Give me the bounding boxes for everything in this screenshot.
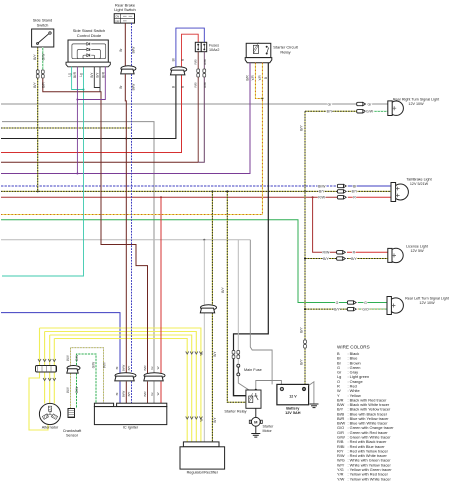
wire B/Y branch to license light bbox=[305, 258, 337, 260]
connector pills rear left turn signal bbox=[347, 301, 353, 304]
svg-text:G/W: G/W bbox=[92, 362, 96, 368]
connector oval igniter group A bbox=[115, 373, 136, 381]
wire R red bus bbox=[1, 75, 182, 152]
connector bullet side stand G/W bbox=[41, 70, 44, 74]
svg-text:Main Fuse: Main Fuse bbox=[244, 368, 262, 372]
svg-text:Bl: Bl bbox=[172, 58, 176, 61]
arrows on regulator wires upper bbox=[186, 352, 189, 355]
arrows on regulator wires lower bbox=[186, 417, 189, 420]
svg-text:12V 5AH: 12V 5AH bbox=[285, 411, 301, 415]
svg-text:12V 5/21W: 12V 5/21W bbox=[410, 182, 429, 186]
wire Bl/R purple bus to starter circuit relay bbox=[1, 63, 250, 174]
svg-text:12V 10W: 12V 10W bbox=[419, 301, 435, 305]
wire B thick to starter relay bbox=[234, 359, 246, 396]
wire B/Y drop to regulator bbox=[211, 191, 213, 442]
svg-text:Bl/W: Bl/W bbox=[121, 391, 125, 398]
svg-text:10Ax2: 10Ax2 bbox=[209, 48, 219, 52]
connector pill B/Y bbox=[357, 110, 363, 113]
svg-text:B/Y: B/Y bbox=[300, 125, 304, 131]
box IC igniter bbox=[94, 403, 113, 406]
svg-text:B/Y: B/Y bbox=[300, 327, 304, 333]
svg-text:B/Y: B/Y bbox=[319, 190, 325, 194]
node junction R/W bus drops bbox=[160, 196, 162, 198]
connector bullet fuse1 bbox=[197, 69, 200, 73]
svg-text:B/Y: B/Y bbox=[127, 366, 131, 371]
node junction W bus / fuse2 drop bbox=[203, 239, 205, 241]
wire G to left turn bulb bbox=[358, 302, 387, 304]
svg-text:B/Y: B/Y bbox=[96, 72, 100, 78]
svg-text:License Light: License Light bbox=[406, 245, 428, 249]
wire B/Y ground bus vertical bbox=[304, 111, 306, 340]
svg-text:B/Y: B/Y bbox=[323, 257, 329, 261]
connector bullet B/Y ground bus bbox=[304, 340, 307, 344]
wire Bl/W rear brake switch right bbox=[131, 23, 133, 66]
lamp tail/brake bulb dual filament bbox=[392, 184, 408, 200]
svg-text:B/Y: B/Y bbox=[327, 110, 333, 114]
connector bullet fuse2 bbox=[203, 69, 206, 73]
svg-text:Bl/W: Bl/W bbox=[318, 184, 326, 188]
svg-text:B/Y: B/Y bbox=[90, 72, 94, 78]
diode-pack base flange bbox=[66, 62, 110, 67]
fuse block F1 F2 10A x2 bbox=[195, 42, 206, 51]
wire Y/R relay pin3 down to Y/R bus bbox=[261, 63, 263, 99]
wire G/O to left turn bulb bbox=[358, 308, 387, 310]
svg-text:G/W: G/W bbox=[366, 110, 374, 114]
wire battery positive to starter relay bbox=[256, 381, 282, 391]
wire Y/R relay pin2 jog bbox=[255, 63, 262, 99]
wire Y yellow phase 1 loop around alternator bbox=[29, 373, 48, 431]
svg-text:B/Y: B/Y bbox=[351, 257, 357, 261]
wire R/W red-white bus to tail light bbox=[1, 196, 337, 198]
wire B/Y diode pin4 bbox=[94, 67, 100, 88]
svg-text:Sensor: Sensor bbox=[66, 434, 79, 438]
wire R to tail bulb bbox=[348, 196, 391, 198]
connector oval main harness bbox=[171, 67, 187, 75]
svg-text:G: G bbox=[364, 301, 367, 305]
wire Y yellow phase 1 (loop) bbox=[40, 328, 201, 442]
svg-text:Switch: Switch bbox=[37, 22, 49, 27]
svg-text:Crankshaft: Crankshaft bbox=[63, 429, 82, 433]
relay starter relay box bbox=[246, 390, 261, 408]
connector oval regulator leads bbox=[200, 305, 216, 313]
svg-text:Y/R: Y/R bbox=[251, 75, 255, 81]
svg-text:G: G bbox=[336, 301, 339, 305]
wire R/Bl fuse2 joining fuse1 output bbox=[198, 77, 204, 162]
wire Y yellow phase 4 bbox=[54, 339, 187, 442]
wire R/B from fuse1 bbox=[197, 52, 199, 69]
wire Br continues to IC igniter bbox=[125, 74, 126, 374]
connector bullet side stand B/Y bbox=[36, 70, 39, 74]
wire B/Y bus upper (black/yellow) bbox=[1, 127, 131, 129]
diode-pack side stand switch control diode box bbox=[68, 40, 108, 62]
wire Lg diode pin1 bbox=[72, 67, 84, 90]
svg-text:W/Y: W/Y bbox=[66, 354, 70, 361]
wire B black bus bbox=[1, 75, 176, 138]
svg-text:Starter: Starter bbox=[263, 425, 275, 429]
switch side stand switch box bbox=[32, 29, 54, 47]
wire G green bus to rear left turn signal bbox=[1, 220, 347, 303]
svg-text:Light Switch: Light Switch bbox=[114, 7, 136, 12]
node junction B bus / rear brake wire bbox=[125, 138, 127, 140]
wire R/Bl from fuse2 bbox=[203, 52, 205, 69]
node junction Y/R pins bbox=[261, 97, 263, 99]
connector pills tail/brake light bbox=[337, 184, 343, 187]
wire W main fuse feed from W bus bbox=[237, 240, 239, 364]
connector bullet main fuse wire bbox=[237, 351, 240, 355]
wire B/R from relay to purple bus bbox=[249, 63, 251, 174]
wire B/Y branch to rear left turn signal bbox=[305, 308, 347, 310]
wire R/B fuse1 to bus bbox=[197, 77, 199, 162]
svg-text:Rear Left Turn Signal Light: Rear Left Turn Signal Light bbox=[405, 297, 449, 301]
wire B/R from bullet joining diode output bbox=[43, 78, 148, 374]
connector bullet battery cable bbox=[232, 351, 235, 355]
wire Y yellow phase 3 bbox=[50, 335, 192, 442]
svg-text:12V 5W: 12V 5W bbox=[410, 249, 424, 253]
battery box bbox=[277, 384, 309, 404]
wire W gray bus (white) bbox=[1, 239, 250, 241]
wire B/Y drop to starter relay bbox=[227, 191, 246, 402]
svg-text:OFF: OFF bbox=[115, 21, 120, 23]
svg-text:B/R: B/R bbox=[42, 82, 46, 88]
svg-text:G/W: G/W bbox=[42, 53, 46, 61]
svg-text:: Yellow with White tracer: : Yellow with White tracer bbox=[348, 476, 392, 481]
svg-text:Y/W: Y/W bbox=[337, 476, 345, 481]
svg-text:B/Y: B/Y bbox=[300, 359, 304, 365]
wire Y/R yellow-red bus from starter circuit relay bbox=[1, 98, 262, 214]
wire Gr gray bus to rear right turn signal bbox=[1, 103, 357, 105]
svg-text:R/Bl: R/Bl bbox=[203, 82, 207, 88]
svg-text:B/Y: B/Y bbox=[221, 287, 225, 293]
svg-text:Fuses: Fuses bbox=[209, 43, 219, 47]
svg-text:Bl/R: Bl/R bbox=[73, 71, 77, 78]
relay starter circuit relay box bbox=[246, 43, 271, 57]
svg-text:Control Diode: Control Diode bbox=[77, 33, 102, 38]
wire Bl/W continues to IC igniter bbox=[131, 74, 133, 374]
wire B/Y to tail bulb bbox=[348, 190, 391, 192]
svg-text:Tail/Brake Light: Tail/Brake Light bbox=[406, 178, 431, 182]
wire Bl blue feed to fuse 2 bbox=[176, 28, 204, 67]
svg-text:W/Y: W/Y bbox=[66, 386, 70, 393]
svg-text:Gr: Gr bbox=[150, 392, 154, 395]
svg-text:Y/R: Y/R bbox=[258, 75, 262, 81]
wire battery negative to ground bbox=[309, 382, 314, 404]
switch rear brake light switch box bbox=[114, 14, 134, 23]
wire R to license bulb bbox=[347, 251, 388, 253]
svg-text:R/W: R/W bbox=[318, 196, 326, 200]
connector pill Gr bbox=[357, 102, 363, 105]
wire Bl to tail bulb bbox=[348, 185, 391, 187]
svg-text:G/O: G/O bbox=[362, 307, 369, 311]
svg-text:W/Y: W/Y bbox=[102, 361, 106, 368]
svg-text:Bl/R: Bl/R bbox=[101, 71, 105, 78]
svg-text:Relay: Relay bbox=[280, 50, 290, 55]
wire Bl/R diode pin2 to purple bus bbox=[76, 67, 78, 174]
svg-text:G/W: G/W bbox=[75, 355, 79, 361]
wire main fuse to starter relay bbox=[238, 376, 256, 390]
wire G/W from side stand switch bbox=[42, 47, 44, 70]
connector oval igniter group B bbox=[144, 373, 165, 381]
svg-text:12 V: 12 V bbox=[289, 395, 297, 399]
relay base flange bbox=[245, 58, 272, 63]
wire B/Y to license bulb bbox=[347, 258, 388, 260]
svg-text:B/Y: B/Y bbox=[33, 82, 37, 88]
wire Gr + B/Y to rear right turn signal connectors bbox=[305, 110, 357, 112]
connector oval crankshaft sensor bbox=[67, 366, 80, 374]
svg-text:Rear Right Turn Signal Light: Rear Right Turn Signal Light bbox=[393, 97, 439, 101]
svg-text:R/B: R/B bbox=[194, 82, 198, 87]
svg-text:W: W bbox=[199, 418, 203, 421]
wire G/W crankshaft sensor to igniter bbox=[76, 374, 78, 409]
wire B/Y bus lower (ground) to tail light bbox=[1, 190, 337, 192]
svg-text:R/W: R/W bbox=[322, 251, 330, 255]
wire R red feed to fuse 1 bbox=[182, 34, 199, 67]
svg-text:Gr: Gr bbox=[150, 366, 154, 369]
svg-text:B/Y: B/Y bbox=[213, 417, 217, 423]
svg-text:R/B: R/B bbox=[194, 59, 198, 64]
wire B/Y ground bus to battery negative bbox=[304, 348, 306, 384]
wire R/W drop to license light bbox=[313, 197, 337, 252]
wire Bl/R diode pin6 joining pin2 bbox=[77, 67, 105, 100]
svg-text:Alternator: Alternator bbox=[42, 426, 59, 430]
svg-text:Bl/W: Bl/W bbox=[131, 47, 135, 54]
svg-text:B/Y: B/Y bbox=[213, 351, 217, 357]
svg-text:Bl/W: Bl/W bbox=[131, 84, 135, 91]
connector oval rear brake switch bbox=[121, 66, 136, 74]
svg-text:G/W: G/W bbox=[75, 387, 79, 393]
svg-text:B/R: B/R bbox=[246, 75, 250, 81]
svg-text:Motor: Motor bbox=[263, 429, 273, 433]
wire B/Y below bullet to B/Y bus bbox=[37, 78, 39, 191]
svg-text:Bl: Bl bbox=[115, 392, 119, 395]
wire Y yellow phase 2 bbox=[45, 332, 197, 442]
svg-text:W: W bbox=[156, 366, 160, 369]
svg-text:B/Y: B/Y bbox=[352, 190, 358, 194]
node junction starter relay terminal bbox=[255, 389, 257, 391]
wire starter motor to ground bbox=[255, 426, 257, 433]
lamp rear right turn signal bulb bbox=[389, 101, 403, 115]
svg-text:Lg: Lg bbox=[79, 73, 83, 77]
svg-text:Starter Relay: Starter Relay bbox=[224, 410, 246, 414]
node junction Bl/R bus / diode drop bbox=[76, 173, 78, 175]
ground starter motor bbox=[251, 433, 260, 435]
svg-text:B/R: B/R bbox=[143, 365, 147, 371]
node junction B/Y bus drops bbox=[37, 190, 39, 192]
svg-text:R/Bl: R/Bl bbox=[203, 59, 207, 65]
wire Bl blue bus to IC igniter bbox=[1, 313, 120, 375]
wire G/W connector to bulb bbox=[367, 110, 388, 112]
svg-text:W: W bbox=[156, 392, 160, 395]
svg-text:B: B bbox=[172, 86, 176, 88]
fuse main fuse symbol bbox=[237, 364, 240, 367]
ground battery bbox=[310, 403, 319, 405]
wire W drop from red bus to igniter bbox=[160, 197, 162, 374]
svg-text:B/Y: B/Y bbox=[334, 307, 340, 311]
wire starter relay to starter motor bbox=[255, 408, 257, 417]
arrows on alternator wires above connector bbox=[38, 359, 41, 362]
svg-text:ON: ON bbox=[115, 16, 119, 19]
wire W/Y crankshaft sensor to igniter bbox=[70, 374, 72, 409]
wire B relay pin4 to starter relay bbox=[234, 63, 269, 351]
svg-text:Battery: Battery bbox=[286, 407, 300, 411]
wire Gr connector to bulb bbox=[367, 103, 388, 105]
sensor crankshaft sensor body bbox=[68, 409, 75, 418]
lamp license light bulb bbox=[389, 248, 403, 262]
wire Lg light green branch bbox=[2, 67, 84, 276]
svg-text:12V 10W: 12V 10W bbox=[408, 102, 424, 106]
wire B/Y diode pin5 joining B/R net bbox=[99, 67, 101, 92]
wire W bus branch to battery positive bbox=[250, 240, 272, 385]
box regulator/rectifier bbox=[183, 442, 219, 447]
svg-text:B/Y: B/Y bbox=[127, 392, 131, 397]
node junction Lg pins bbox=[83, 89, 85, 91]
motor starter motor bbox=[251, 417, 260, 426]
svg-text:Bl: Bl bbox=[353, 184, 356, 188]
svg-text:B/Y: B/Y bbox=[33, 54, 37, 60]
alternator symbol bbox=[39, 403, 60, 424]
lamp rear left turn signal bulb bbox=[388, 298, 403, 313]
connector pills license light bbox=[337, 251, 343, 254]
svg-text:Regulator/Rectifier: Regulator/Rectifier bbox=[187, 471, 219, 475]
svg-text:B: B bbox=[264, 77, 268, 79]
wire Gr branch to IC igniter (gray loop) bbox=[2, 122, 154, 375]
wire B/Y from side stand switch bbox=[37, 47, 39, 70]
svg-text:Bl/W: Bl/W bbox=[121, 365, 125, 372]
wire W from fuse2 to regulator bbox=[203, 240, 205, 442]
wire Bl/W blue-white bus to tail light bbox=[1, 185, 337, 187]
svg-text:Lg: Lg bbox=[67, 73, 71, 77]
wires into igniter connectors bbox=[119, 382, 121, 404]
wire Br rear brake switch left bbox=[124, 23, 126, 66]
wire B/R fuse1 bus bbox=[1, 161, 198, 163]
svg-text:WIRE COLORS: WIRE COLORS bbox=[337, 345, 370, 350]
svg-text:Bl: Bl bbox=[115, 366, 119, 369]
arrows on alternator wires below connector bbox=[43, 378, 46, 381]
svg-text:B/R: B/R bbox=[143, 391, 147, 397]
svg-text:IC Igniter: IC Igniter bbox=[123, 426, 139, 430]
connector alternator 4-pin bbox=[36, 366, 57, 373]
